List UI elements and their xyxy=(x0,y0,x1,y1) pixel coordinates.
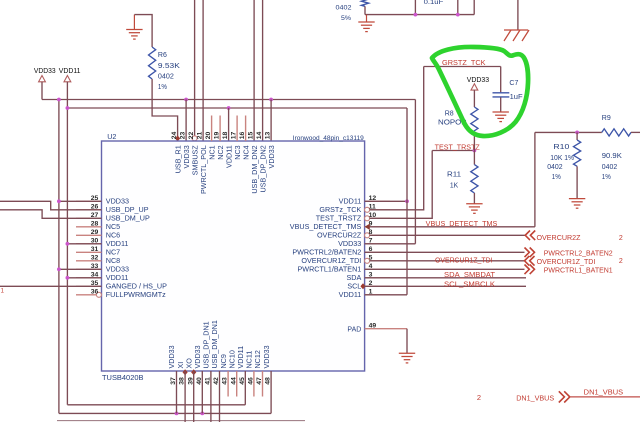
svg-text:TUSB4020B: TUSB4020B xyxy=(102,375,144,382)
svg-text:15: 15 xyxy=(248,132,255,140)
wire pin15 to top xyxy=(253,0,255,141)
wire R8 to junction xyxy=(473,136,475,151)
svg-text:U2: U2 xyxy=(107,132,116,141)
pin 1 VDD11 xyxy=(365,294,390,296)
svg-text:R9: R9 xyxy=(602,115,611,122)
wire R9 right xyxy=(631,131,640,133)
pin 43 NC9 xyxy=(227,371,229,397)
wire bottom edge net xyxy=(57,420,305,422)
wire pin34 VDD11 xyxy=(67,277,101,279)
wire USB_DM_UP to left edge xyxy=(0,210,102,219)
wire pin22 SMBUSZ to top xyxy=(194,0,196,136)
svg-text:R6: R6 xyxy=(158,52,167,59)
pin 12 VDD11 xyxy=(365,200,390,202)
off-page OVERCUR1Z_TDI xyxy=(525,256,535,266)
svg-text:R10: R10 xyxy=(553,144,569,151)
pin 26 USB_DP_UP xyxy=(76,209,102,211)
svg-text:46: 46 xyxy=(248,377,255,385)
wire GANGED / HS_UP to left edge xyxy=(0,285,102,287)
wire GRSTZ to C7 xyxy=(500,67,502,93)
pin 32 NC8 xyxy=(76,260,102,262)
pin 46 NC11 xyxy=(253,371,255,397)
svg-text:16: 16 xyxy=(239,132,246,140)
svg-text:0402: 0402 xyxy=(158,74,174,81)
wire R6 top xyxy=(134,15,152,47)
wire C7 to ground xyxy=(500,97,502,112)
wire R10 to ground xyxy=(576,166,578,198)
wire VDD11 bottom rail xyxy=(67,404,245,406)
pin 19 NC2 xyxy=(219,116,221,142)
svg-text:R8: R8 xyxy=(445,111,454,118)
svg-text:44: 44 xyxy=(230,377,237,385)
pin 17 NC3 xyxy=(236,116,238,142)
off-page PWRCTRL1_BATEN1 xyxy=(525,265,535,275)
svg-text:2: 2 xyxy=(477,393,481,402)
wire VDD33 bottom rail xyxy=(59,412,271,414)
wire pin6 PWRCTRL2/BATEN2 xyxy=(365,251,525,253)
svg-text:1uF: 1uF xyxy=(510,94,523,101)
wire VBUS riser xyxy=(534,132,536,226)
svg-text:R11: R11 xyxy=(447,171,461,178)
wire pin40 VDD33 down xyxy=(201,371,203,413)
pin 29 NC6 xyxy=(76,234,102,236)
svg-text:DN1_VBUS: DN1_VBUS xyxy=(584,390,624,397)
wire: cap2 lead xyxy=(457,0,459,15)
pin 25 VDD33 xyxy=(76,200,102,202)
svg-text:OVERCUR1Z_TDI: OVERCUR1Z_TDI xyxy=(537,259,596,266)
resistor R9 90.9K xyxy=(602,129,631,136)
svg-text:1%: 1% xyxy=(602,174,611,181)
wire VDD11 right rail xyxy=(406,108,408,295)
marker pin 2 xyxy=(360,283,365,289)
svg-text:0402: 0402 xyxy=(336,5,352,12)
resistor R6 xyxy=(149,47,156,79)
pin 8 OVERCUR2Z xyxy=(365,233,370,238)
wire pin30 VDD11 xyxy=(67,243,101,245)
wire pin39 XO down xyxy=(193,371,195,422)
ground (C7) xyxy=(493,111,509,113)
ground (R11) xyxy=(466,203,482,205)
pin 7 VDD33 xyxy=(365,243,390,245)
pin 11 GRSTz_TCK xyxy=(365,207,370,212)
svg-text:1%: 1% xyxy=(552,174,561,181)
svg-text:GRSTZ_TCK: GRSTZ_TCK xyxy=(442,60,486,67)
svg-text:VDD33: VDD33 xyxy=(267,145,276,168)
svg-text:VDD11: VDD11 xyxy=(59,68,81,75)
chassis ground (top right) xyxy=(517,0,519,30)
off-page OVERCUR2Z xyxy=(525,231,535,241)
svg-text:2: 2 xyxy=(619,258,623,265)
wire: top gnd rail xyxy=(365,14,474,16)
pin 27 USB_DM_UP xyxy=(76,217,102,219)
svg-text:0402: 0402 xyxy=(602,164,617,171)
svg-text:DN1_VBUS: DN1_VBUS xyxy=(516,393,554,402)
svg-text:23: 23 xyxy=(180,132,187,140)
wire pin33 VDD33 xyxy=(59,268,102,270)
pin 31 NC7 xyxy=(76,251,102,253)
pin 6 PWRCTRL2/BATEN2 xyxy=(365,251,390,253)
svg-text:5%: 5% xyxy=(341,15,351,22)
wire pin21 to top xyxy=(202,0,204,141)
svg-text:20: 20 xyxy=(205,132,212,140)
wire junction to R11 xyxy=(473,151,475,165)
wire USB_DP_UP to left edge xyxy=(0,201,102,210)
pin 47 NC12 xyxy=(262,371,264,397)
svg-text:28: 28 xyxy=(91,221,99,228)
wire pin11 GRSTz riser xyxy=(370,67,424,210)
wire pin48 VDD33 down xyxy=(270,371,272,413)
wire pin9 VBUS_DETECT_TMS xyxy=(370,226,535,228)
wire pin14 to top xyxy=(262,0,264,141)
wire pin41 USB_DP_DN1 down xyxy=(210,371,212,422)
pin 49 PAD xyxy=(365,328,407,330)
wire R11 to ground xyxy=(473,193,475,204)
wire R6 to pin 24 xyxy=(152,79,178,141)
wire pin7 VDD33 xyxy=(365,243,416,245)
wire pin4 PWRCTL1/BATEN1 xyxy=(365,268,525,270)
svg-text:VDD33: VDD33 xyxy=(467,77,489,84)
svg-text:49: 49 xyxy=(369,322,377,329)
pin 36 FULLPWRMGMTz xyxy=(76,294,96,296)
svg-text:VDD33: VDD33 xyxy=(34,68,56,75)
pin 16 NC4 xyxy=(245,116,247,142)
wire pin10 TEST riser xyxy=(370,151,433,219)
annotation: green freehand circle around GRSTZ_TCK / C7 xyxy=(432,47,528,136)
svg-text:C7: C7 xyxy=(509,80,518,87)
marker pin 38 xyxy=(183,369,188,375)
wire GRSTZ_TCK xyxy=(424,66,501,68)
svg-text:32: 32 xyxy=(91,255,99,262)
svg-text:10K 1%: 10K 1% xyxy=(550,155,574,162)
svg-text:1%: 1% xyxy=(158,84,167,91)
wire pin8 OVERCUR2Z xyxy=(370,234,526,236)
svg-text:PAD: PAD xyxy=(347,327,361,334)
wire VDD11 left rail xyxy=(66,108,68,405)
wire DN1_VBUS xyxy=(571,396,640,398)
pin 4 PWRCTL1/BATEN1 xyxy=(365,268,390,270)
ground (R6) xyxy=(133,15,135,30)
svg-text:2: 2 xyxy=(619,235,623,242)
wire pin3 SDA xyxy=(365,277,526,279)
svg-text:1K: 1K xyxy=(450,183,459,190)
junction on top rail xyxy=(414,13,418,17)
wire pin25 VDD33 xyxy=(59,200,102,202)
svg-text:29: 29 xyxy=(91,229,99,236)
wire VDD33 left rail xyxy=(58,100,60,414)
ground (R10) xyxy=(569,198,585,200)
wire VDD11 bus xyxy=(66,82,68,108)
svg-text:OVERCUR1Z_TDI: OVERCUR1Z_TDI xyxy=(435,258,493,265)
pin 33 VDD33 xyxy=(76,268,102,270)
capacitor C7 1uF xyxy=(493,92,510,94)
wire: cap1 lead xyxy=(414,0,416,15)
pin 20 NC1 xyxy=(211,116,213,142)
wire VDD33 to R8 xyxy=(473,90,475,107)
pin 9 VBUS_DETECT_TMS xyxy=(365,226,390,228)
svg-text:VBUS_DETECT_TMS: VBUS_DETECT_TMS xyxy=(426,221,498,228)
wire pin2 SCL xyxy=(365,285,526,287)
svg-text:TEST_TRSTZ: TEST_TRSTZ xyxy=(435,145,481,152)
junction dots on buses xyxy=(57,98,61,102)
svg-text:21: 21 xyxy=(197,132,204,140)
junctions bottom rail xyxy=(175,412,179,416)
resistor R? 0402 5% (cut off at top) xyxy=(361,0,368,6)
wire pin5 OVERCUR1Z_TDI xyxy=(370,260,525,262)
svg-text:0.1uF: 0.1uF xyxy=(424,0,444,6)
pin 30 VDD11 xyxy=(76,243,102,245)
svg-text:VDD11: VDD11 xyxy=(339,290,362,299)
svg-text:14: 14 xyxy=(256,132,263,140)
svg-text:17: 17 xyxy=(231,132,238,140)
bubble pin 22 xyxy=(192,136,197,141)
svg-text:SDA_SMBDAT: SDA_SMBDAT xyxy=(444,272,496,279)
svg-text:OVERCUR2Z: OVERCUR2Z xyxy=(537,235,582,242)
wire pin45 VDD11 down xyxy=(244,371,246,405)
wire VDD33 bus xyxy=(42,99,415,101)
wire pin37 VDD33 down xyxy=(176,371,178,413)
wire pin23 to VDD33 bus xyxy=(185,100,187,142)
wire pin1 VDD11 xyxy=(365,294,407,296)
pin 3 SDA xyxy=(365,277,390,279)
wire pin42 USB_DM_DN1 down xyxy=(219,371,221,422)
wire pin12 VDD11 xyxy=(365,200,407,202)
resistor R8 NOPOP xyxy=(471,107,478,136)
svg-text:FULLPWRMGMTz: FULLPWRMGMTz xyxy=(106,290,166,299)
wire pin38 XI down xyxy=(184,371,186,422)
svg-text:0402: 0402 xyxy=(547,164,562,171)
pin 34 VDD11 xyxy=(76,277,102,279)
svg-text:PWRCTRL1_BATEN1: PWRCTRL1_BATEN1 xyxy=(544,267,613,274)
wire pin13 to VDD33 bus xyxy=(270,100,272,142)
pin 5 OVERCUR1Z_TDI xyxy=(365,258,370,263)
svg-text:43: 43 xyxy=(222,377,229,385)
svg-text:SCL_SMBCLK: SCL_SMBCLK xyxy=(444,281,495,288)
wire pin18 to VDD11 bus xyxy=(228,108,230,141)
svg-text:VDD33: VDD33 xyxy=(262,345,271,368)
marker pin 39 xyxy=(191,369,196,375)
resistor R10 10K xyxy=(576,132,578,140)
svg-text:36: 36 xyxy=(91,289,99,296)
svg-text:90.9K: 90.9K xyxy=(602,153,622,160)
svg-text:18: 18 xyxy=(222,132,229,140)
wire PAD to ground xyxy=(406,329,408,354)
svg-text:22: 22 xyxy=(188,132,195,140)
svg-text:24: 24 xyxy=(171,132,178,140)
resistor R11 1K xyxy=(471,165,478,193)
svg-text:Ironwood_48pin_c13119: Ironwood_48pin_c13119 xyxy=(293,135,364,142)
svg-text:31: 31 xyxy=(91,246,99,253)
pin 28 NC5 xyxy=(76,226,102,228)
wire VDD33 right rail xyxy=(414,100,416,244)
wire to R9 xyxy=(535,131,602,133)
svg-text:47: 47 xyxy=(256,377,263,385)
wire TEST_TRSTZ xyxy=(432,150,474,152)
svg-text:13: 13 xyxy=(265,132,272,140)
pin 10 TEST_TRSTZ xyxy=(365,216,370,221)
svg-text:9.53K: 9.53K xyxy=(158,63,180,70)
ground (top middle) xyxy=(366,15,368,22)
wire: right riser of top rail xyxy=(473,0,475,15)
ground (PAD) xyxy=(399,352,415,354)
off-page PWRCTRL2_BATEN2 xyxy=(525,248,535,258)
svg-text:19: 19 xyxy=(214,132,221,140)
marker pin 9 input arrow xyxy=(365,224,370,230)
pin 35 GANGED / HS_UP xyxy=(76,285,102,287)
IC U2 TUSB4020B body xyxy=(102,141,365,371)
marker pin 24 xyxy=(175,135,180,141)
pin 2 SCL xyxy=(365,285,390,287)
pin 44 NC10 xyxy=(236,371,238,397)
svg-text:PWRCTRL2_BATEN2: PWRCTRL2_BATEN2 xyxy=(544,250,613,257)
